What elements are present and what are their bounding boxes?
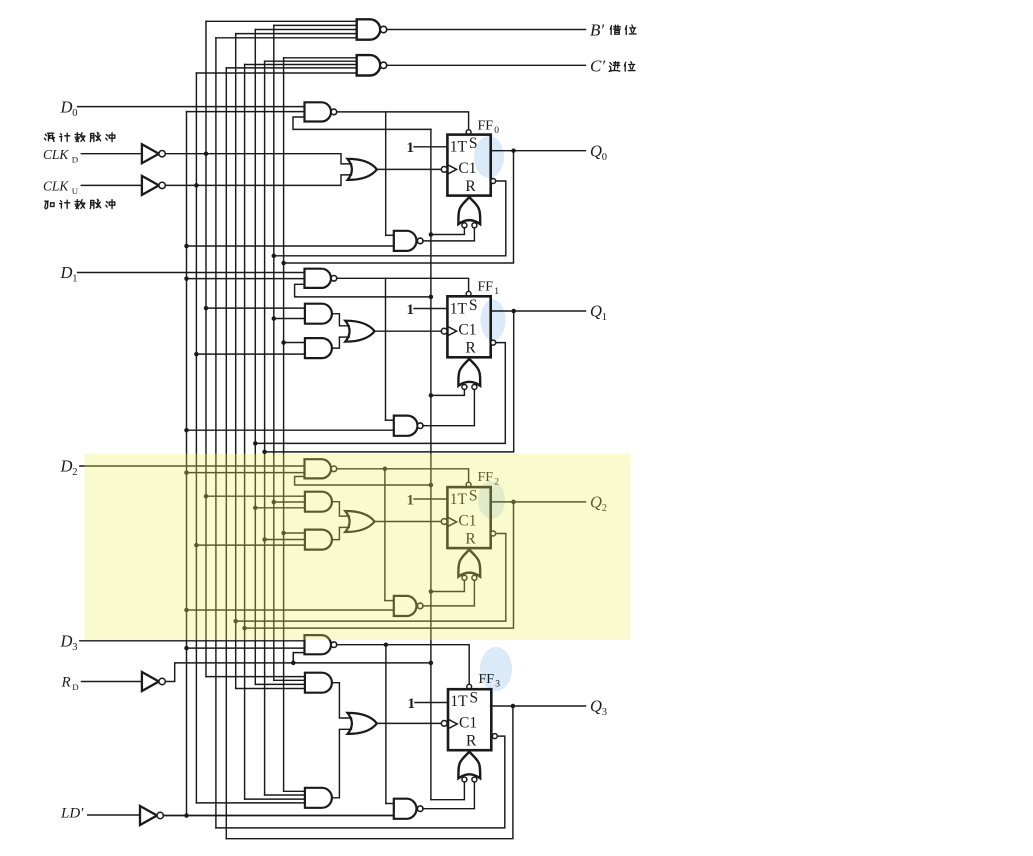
- or gate G-reset2 (inverted inputs): [458, 550, 480, 577]
- wire load-enable to G-latch2: [187, 609, 394, 611]
- output bubble of G-carry: [380, 62, 386, 68]
- nand gate G-latch0 (2-input): [394, 231, 417, 251]
- junction cross-link/reset vertical 1: [429, 295, 434, 300]
- and gate G-down3: [305, 673, 332, 693]
- dynamic clock indicator of FF1: [447, 326, 456, 336]
- wire reset to G-reset1 left input: [431, 390, 465, 396]
- svg-text:D: D: [60, 456, 73, 475]
- junction CLK_D inverted bus tap: [204, 494, 209, 499]
- output bubble of G-latch3: [417, 806, 423, 812]
- Q'3 output bubble: [492, 734, 497, 739]
- S input bubble of FF0: [466, 130, 471, 135]
- svg-text:D: D: [72, 154, 78, 164]
- wire Q1 output: [491, 310, 586, 312]
- nand gate G-latch2 (2-input): [394, 596, 417, 616]
- wire 1-stub 2: [414, 498, 447, 500]
- wire reset vertical: [430, 129, 432, 799]
- wire Q0 output: [491, 150, 586, 152]
- wire G-up2 input from CLK_U inverted bus: [196, 544, 305, 546]
- output bubble of G-latch2: [417, 603, 423, 609]
- junction load-output branch 3: [384, 642, 389, 647]
- wire G-carry input from Q0 bus: [284, 57, 357, 59]
- nand gate G-load3 (3-input): [305, 635, 332, 654]
- Q'0 output bubble: [491, 179, 496, 184]
- wire G-load1 input3 cross-link: [295, 284, 431, 297]
- input bubbles of G-reset0: [462, 223, 467, 228]
- inverter U-CLKD: [142, 144, 159, 163]
- and gate G-down2: [305, 492, 332, 512]
- wire branch to K-nand input1 2: [385, 600, 394, 602]
- wire 1-stub 1: [414, 308, 447, 310]
- svg-text:CLK: CLK: [43, 147, 69, 162]
- svg-text:3: 3: [72, 642, 77, 653]
- svg-text:1T: 1T: [450, 139, 468, 156]
- inverter U-RD: [142, 672, 159, 691]
- wire branch to K-nand input1 3: [386, 803, 394, 805]
- wire G-load3 input3 down-link: [292, 653, 294, 663]
- wire CLK_U inverted bus (vertical x=196.4): [195, 73, 197, 803]
- wire G-latch3 output to G-reset3: [423, 782, 475, 809]
- wire Q1 bus (vertical x=264.6): [264, 61, 266, 795]
- inverter U-LD: [140, 806, 157, 825]
- nand gate G-carry (5-input): [357, 55, 381, 75]
- junction Q1: [511, 309, 516, 314]
- junction CLK_U inverted bus tap: [194, 352, 199, 357]
- C1 input bubble of FF2: [441, 519, 447, 525]
- wire load-enable to G-load1: [187, 278, 305, 280]
- flip-flop FF0 box: [447, 135, 490, 196]
- inverter U-CLKU: [142, 176, 159, 195]
- wire LD' to inverter: [88, 814, 140, 816]
- wire D1 input: [78, 272, 305, 274]
- svg-text:C′: C′: [590, 57, 605, 76]
- wire Q'2 feedback: [236, 534, 506, 622]
- and gate G-down1: [305, 304, 332, 324]
- wire G-down3 input from Q1' bus: [255, 683, 305, 685]
- or gate G-clk3: [348, 713, 377, 734]
- input bubbles of G-reset1: [462, 385, 467, 390]
- flip-flop FF3 box: [448, 689, 491, 750]
- wire Q3' bus (vertical x=215.9): [215, 38, 217, 828]
- wire G-borrow input from Q1' bus: [255, 29, 356, 31]
- wire 1-stub 3: [415, 702, 447, 704]
- wire G-borrow input from Q2' bus: [236, 33, 357, 35]
- svg-text:3: 3: [495, 679, 500, 689]
- wire clk OR to C1 3: [377, 722, 441, 724]
- svg-text:D: D: [60, 631, 73, 650]
- or gate G-reset0 (inverted inputs): [458, 197, 480, 224]
- junction load-line/load-bus: [184, 813, 189, 818]
- svg-text:0: 0: [494, 126, 499, 136]
- svg-text:1: 1: [602, 312, 607, 323]
- svg-text:LD′: LD′: [60, 806, 84, 822]
- wire load-enable to G-latch0: [187, 245, 394, 247]
- S input bubble of FF1: [466, 291, 471, 296]
- output bubble of G-borrow: [380, 26, 386, 32]
- wire 1-stub 0: [414, 146, 447, 148]
- wire G-down1 output jog: [332, 314, 349, 326]
- junction load bus tap 3: [184, 646, 189, 651]
- svg-text:S: S: [470, 690, 479, 707]
- wire clk OR to C1 1: [375, 330, 442, 332]
- wire branch to K-nand input1 0: [386, 234, 394, 236]
- output bubble of G-load2: [331, 466, 337, 472]
- wire Q0 bus (vertical x=283.6): [283, 58, 285, 792]
- nand gate G-borrow (5-input): [357, 19, 380, 39]
- wire G-up1 output jog: [332, 337, 349, 348]
- wire S-branch vertical 1: [385, 278, 387, 420]
- svg-text:C1: C1: [458, 160, 476, 177]
- wire G-borrow input from CLK_D inverted bus: [206, 20, 357, 22]
- blue highlight ellipse FF0: [474, 136, 504, 178]
- junction Q3: [511, 704, 516, 709]
- wire S-branch vertical 3: [385, 645, 387, 804]
- wire load-enable to G-load0: [187, 111, 305, 113]
- wire load enable bus (vertical x=186.5): [186, 112, 188, 816]
- nand gate G-load1 (3-input): [305, 269, 331, 288]
- junction Q2: [511, 500, 516, 505]
- junction Q2/bus: [242, 626, 247, 631]
- wire load-enable to G-latch1: [187, 429, 394, 431]
- wire CLK_D inverted bus (vertical x=206.0): [205, 21, 207, 676]
- junction load bus tap 2: [184, 470, 189, 475]
- flip-flop FF1 box: [447, 296, 490, 357]
- wire load-enable to G-load2: [187, 472, 305, 474]
- wire G-down2 input from Q1' bus: [255, 507, 305, 509]
- wire G-up3 input from Q0 bus: [284, 790, 305, 792]
- wire clk OR to C1 2: [375, 521, 442, 523]
- wire Q'3 feedback: [216, 736, 505, 828]
- svg-text:1T: 1T: [450, 300, 468, 317]
- wire G-down1 input from CLK_D inverted bus: [206, 307, 305, 309]
- wire G-down1 input from Q0' bus: [274, 318, 305, 320]
- input bubbles of G-reset3: [462, 777, 467, 782]
- nand gate G-load0 (3-input): [305, 102, 332, 121]
- junction load bus / G-latch1: [184, 428, 189, 433]
- output bubble of G-load0: [331, 109, 337, 115]
- wire G-load0 input3 cross-link: [293, 117, 431, 129]
- junction reset vertical tap 0: [429, 232, 434, 237]
- junction Q1/bus: [262, 450, 267, 455]
- wire reset to G-reset2 left input: [431, 580, 465, 591]
- dynamic clock indicator of FF2: [447, 517, 456, 527]
- svg-text:1: 1: [72, 274, 77, 285]
- wire clk OR to C1 0: [377, 168, 441, 170]
- wire branch to K-nand input1 1: [386, 419, 394, 421]
- wire G-up3 input from CLK_U inverted bus: [196, 802, 305, 804]
- svg-text:1: 1: [407, 140, 415, 156]
- C1 input bubble of FF3: [441, 721, 447, 727]
- svg-text:2: 2: [72, 467, 77, 478]
- wire CLK_D to inverter: [81, 153, 142, 155]
- or gate G-clk1: [345, 321, 374, 342]
- junction reset/reset-vertical: [429, 661, 434, 666]
- output bubble of G-load1: [331, 276, 337, 282]
- junction reset/D3-load-nand: [291, 661, 296, 666]
- wire G-borrow input from Q0' bus: [274, 24, 357, 26]
- wire G-latch2 output to G-reset2: [423, 580, 475, 606]
- wire CLK_U inverted: [165, 175, 351, 186]
- junction load bus / G-latch0: [184, 244, 189, 249]
- svg-text:U: U: [72, 186, 79, 196]
- wire G-down2 input from CLK_D inverted bus: [206, 495, 305, 497]
- yellow highlight overlay: [85, 454, 631, 640]
- wire G-load3 input3 cross-link: [293, 653, 304, 663]
- wire G-carry input from CLK_U inverted bus: [196, 72, 356, 74]
- C1 input bubble of FF1: [441, 328, 447, 334]
- dynamic clock indicator of FF0: [447, 165, 456, 175]
- svg-text:S: S: [469, 297, 478, 314]
- wire Q1' bus (vertical x=255.3): [254, 30, 256, 685]
- svg-text:D: D: [72, 682, 78, 692]
- svg-text:FF: FF: [479, 672, 495, 687]
- junction load-output branch 2: [383, 467, 388, 472]
- wire G-up2 output jog: [332, 527, 349, 539]
- wire G-latch0 output to G-reset0: [423, 228, 475, 241]
- nand gate G-latch3 (2-input): [394, 799, 417, 819]
- wire G-load2 input3 cross-link: [295, 477, 431, 486]
- wire G-up3 input from Q2 bus: [245, 798, 305, 800]
- junction load bus tap 1: [184, 276, 189, 281]
- wire G-load2 output to S: [337, 469, 469, 483]
- junction reset vertical tap 1: [429, 393, 434, 398]
- wire Q3 bus (vertical x=226.3): [225, 68, 227, 839]
- and gate G-up3: [305, 788, 332, 808]
- label 加计数脉冲: [45, 201, 54, 209]
- flip-flop FF2 box: [447, 487, 490, 548]
- wire RD inverted (reset line): [165, 663, 431, 682]
- wire D2 input: [80, 465, 305, 467]
- junction Q0 bus tap: [281, 531, 286, 536]
- svg-text:FF: FF: [478, 280, 494, 295]
- svg-text:3: 3: [602, 707, 607, 718]
- junction Q0' bus tap: [272, 316, 277, 321]
- wire G-load3 output to S: [337, 645, 470, 685]
- junction load bus / G-latch2: [184, 608, 189, 613]
- svg-text:0: 0: [602, 152, 607, 163]
- Q'2 output bubble: [491, 531, 496, 536]
- junction reset vertical tap 2: [429, 589, 434, 594]
- or gate G-reset1 (inverted inputs): [458, 359, 480, 386]
- svg-text:Q: Q: [590, 697, 602, 716]
- wire B' output: [387, 29, 586, 31]
- wire G-up2 input from Q1 bus: [265, 539, 305, 541]
- junction Q0' bus tap: [272, 500, 277, 505]
- wire reset to G-reset0 left input: [431, 228, 465, 235]
- svg-text:1T: 1T: [450, 693, 468, 710]
- nand gate G-latch1 (2-input): [394, 416, 418, 436]
- wire LD' inverted (load line): [163, 815, 393, 817]
- wire G-up1 input from CLK_U inverted bus: [196, 353, 305, 355]
- wire Q1 feedback: [265, 311, 514, 452]
- and gate G-up2: [305, 530, 332, 550]
- or gate G-reset3 (inverted inputs): [458, 752, 480, 779]
- wire G-up2 input from Q0 bus: [284, 532, 305, 534]
- junction CLK_D inverted bus tap: [204, 306, 209, 311]
- wire G-down2 input from Q0' bus: [274, 501, 305, 503]
- junction Q0 bus tap: [281, 340, 286, 345]
- output bubble of G-load3: [331, 642, 337, 648]
- blue highlight ellipse FF2: [478, 481, 505, 519]
- svg-text:0: 0: [72, 108, 77, 119]
- svg-text:D: D: [60, 97, 73, 116]
- wire G-borrow input from Q3' bus: [216, 37, 357, 39]
- svg-text:CLK: CLK: [43, 179, 69, 194]
- wire Q'0 feedback: [274, 181, 506, 256]
- wire Q0 feedback: [284, 151, 514, 263]
- and gate G-up1: [305, 338, 332, 358]
- blue highlight ellipse FF1: [481, 300, 506, 341]
- svg-text:1: 1: [494, 287, 499, 297]
- blue highlight ellipse FF3: [480, 647, 512, 691]
- wire S-branch vertical 2: [384, 469, 386, 601]
- S input bubble of FF2: [466, 482, 471, 487]
- or gate G-clk2: [345, 511, 374, 532]
- wire Q2 output: [491, 501, 586, 503]
- svg-text:Q: Q: [590, 302, 602, 321]
- svg-text:Q: Q: [590, 141, 602, 160]
- wire Q2 bus (vertical x=244.6): [244, 65, 246, 800]
- svg-text:S: S: [469, 135, 478, 152]
- nand gate G-load2 (3-input): [305, 459, 332, 478]
- wire RD to inverter: [82, 681, 142, 683]
- svg-text:C1: C1: [459, 714, 477, 731]
- junction Q0/bus: [281, 261, 286, 266]
- svg-text:B′: B′: [590, 21, 604, 40]
- wire G-down2 output jog: [332, 502, 349, 516]
- svg-text:R: R: [466, 732, 477, 749]
- wire C' output: [387, 64, 586, 66]
- wire G-carry input from Q2 bus: [245, 64, 357, 66]
- wire G-load1 output to S: [337, 278, 469, 291]
- wire G-down3 output jog: [332, 683, 352, 718]
- wire G-up3 input from Q1 bus: [265, 794, 305, 796]
- dynamic clock indicator of FF3: [448, 719, 457, 729]
- wire G-carry input from Q3 bus: [226, 67, 356, 69]
- wire S-branch vertical 0: [385, 112, 387, 235]
- label 减计数脉冲: [44, 133, 54, 141]
- wire Q0' bus (vertical x=273.8): [273, 25, 275, 680]
- svg-text:C1: C1: [458, 322, 476, 339]
- junction CLK_U/bus: [194, 183, 199, 188]
- Q'1 output bubble: [491, 340, 496, 345]
- junction Q1 bus tap: [262, 537, 267, 542]
- junction CLK_D/bus: [204, 151, 209, 156]
- svg-text:R: R: [61, 675, 71, 691]
- wire Q3 feedback: [226, 706, 513, 839]
- svg-text:D: D: [60, 263, 73, 282]
- wire G-up1 input from Q0 bus: [284, 342, 305, 344]
- svg-text:1: 1: [408, 696, 416, 712]
- junction Q1' bus tap: [253, 506, 257, 511]
- wire G-down3 input from CLK_D inverted bus: [206, 676, 305, 678]
- wire CLK_U to inverter: [81, 184, 142, 186]
- wire reset to G-reset3 left input: [431, 782, 465, 800]
- svg-text:1: 1: [407, 302, 415, 318]
- wire G-latch1 output to G-reset1: [423, 390, 475, 426]
- wire Q'1 feedback: [255, 343, 505, 444]
- wire Q2' bus (vertical x=235.7): [235, 34, 237, 689]
- wire Q3 output: [491, 705, 586, 707]
- wire G-up3 output jog: [332, 729, 352, 798]
- junction cross-link/reset vertical 2: [429, 483, 434, 488]
- wire G-down3 input from Q0' bus: [274, 679, 305, 681]
- wire load-enable to G-latch3: [163, 815, 393, 817]
- wire Q2 feedback: [245, 502, 514, 628]
- wire D3 input: [80, 640, 305, 642]
- svg-text:FF: FF: [478, 119, 494, 134]
- wire D0 input: [78, 106, 305, 108]
- junction Q0: [511, 148, 516, 153]
- output bubble of G-latch1: [417, 423, 423, 429]
- wire G-carry input from Q1 bus: [265, 60, 357, 62]
- junction CLK_U inverted bus tap: [194, 543, 199, 548]
- S input bubble of FF3: [467, 684, 472, 689]
- wire CLK_D inverted: [165, 154, 351, 164]
- junction Q'1/bus: [253, 441, 257, 446]
- junction Q'2/bus: [233, 619, 238, 624]
- junction Q'0/bus: [272, 254, 277, 258]
- svg-text:R: R: [465, 340, 476, 357]
- wire load-enable to G-load3: [187, 647, 305, 649]
- or gate G-clk0: [348, 159, 377, 180]
- output bubble of G-latch0: [417, 238, 423, 244]
- svg-text:R: R: [465, 178, 476, 195]
- wire G-load0 output to S: [337, 112, 469, 130]
- input bubbles of G-reset2: [462, 575, 467, 580]
- C1 input bubble of FF0: [441, 167, 447, 173]
- wire G-down3 input from Q2' bus: [236, 688, 305, 690]
